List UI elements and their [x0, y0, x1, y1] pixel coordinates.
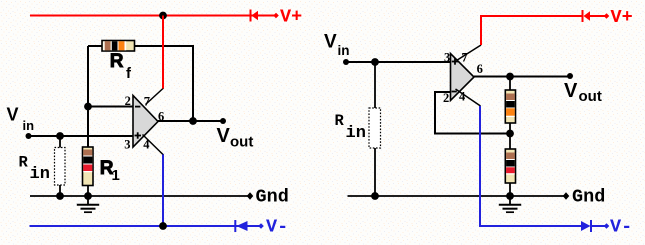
node: Gnd terminal diamond: [247, 192, 254, 200]
svg-text:R: R: [110, 51, 124, 72]
svg-text:V: V: [7, 105, 19, 125]
node: junction dot Rin top: [56, 132, 64, 140]
wire: blue vertical from pin 4 right: [480, 106, 581, 226]
svg-text:V+: V+: [280, 7, 302, 28]
node: output junction dot: [189, 117, 197, 125]
svg-text:V: V: [217, 125, 231, 147]
wire: blue vertical from pin 4: [162, 155, 164, 227]
svg-text:in: in: [30, 165, 50, 184]
svg-text:Gnd: Gnd: [572, 187, 605, 208]
svg-text:in: in: [338, 43, 350, 58]
resistor Rin (dotted outline): [55, 148, 66, 186]
svg-text:2: 2: [125, 94, 131, 108]
wire: feedback loop left vertical (node pin2 to Rf): [87, 46, 89, 107]
wire: red vertical to pin 7: [162, 16, 164, 89]
node: junction dot Rin top: [371, 58, 379, 66]
plus sign at pin 3: [452, 58, 458, 64]
node: junction dot on V- rail: [159, 222, 167, 230]
wire: output from pin 6: [474, 76, 570, 78]
op-amp U1 triangle: [133, 96, 158, 148]
svg-text:3: 3: [124, 138, 130, 152]
wire: red vertical V+: [481, 16, 582, 45]
svg-text:in: in: [23, 118, 35, 133]
node: junction dot R1 bottom: [84, 192, 92, 200]
wire: Rf left lead: [88, 45, 103, 47]
wire: pin 4 diagonal: [456, 89, 481, 106]
node: junction dot pin2/feedback: [84, 103, 92, 111]
wire: ground bus right: [348, 195, 567, 197]
resistor R1 body: [83, 147, 94, 186]
resistor R1 right body: [505, 149, 515, 183]
wire: Rf right lead to right vertical: [134, 45, 193, 47]
node: junction dot on V+ rail: [159, 12, 167, 20]
resistor Rf right body: [505, 90, 515, 123]
resistor Rf body: [102, 41, 135, 52]
connector V- right (triangle and bar): [581, 220, 605, 232]
node: V+ diamond right: [604, 13, 610, 19]
wire: pin 7 diagonal to V+: [146, 88, 164, 105]
node: V+ diamond: [273, 13, 279, 19]
ground symbol right: [499, 196, 521, 212]
wire: Rf top lead: [509, 77, 511, 91]
svg-text:V: V: [564, 80, 578, 102]
wire: pin 2 input wire: [88, 106, 133, 108]
wire: R1 bottom lead: [87, 186, 89, 197]
wire: vertical from pin2 node down to R1: [87, 107, 89, 148]
svg-text:in: in: [346, 124, 366, 143]
wire: Rin bottom lead: [374, 148, 376, 196]
wire: R1 bottom lead: [509, 183, 511, 196]
svg-text:Gnd: Gnd: [256, 187, 289, 208]
wire: feedback loop to pin 2: [435, 92, 510, 134]
svg-text:out: out: [230, 134, 253, 151]
wire: V+ rail red: [30, 15, 276, 17]
node: V- diamond right: [604, 223, 610, 229]
wire: ground bus: [30, 195, 250, 197]
wire: pin 7 diagonal: [457, 45, 482, 61]
wire: output from pin 6: [158, 120, 223, 122]
connector V+ (bar and triangle): [251, 10, 259, 22]
ground symbol: [77, 196, 99, 212]
node: output junction dot: [506, 73, 514, 81]
wire: Rf bottom lead: [509, 123, 511, 134]
svg-text:R: R: [19, 154, 29, 172]
node: Vin terminal dot: [26, 133, 32, 139]
svg-text:6: 6: [477, 62, 483, 76]
node: junction dot R1 bottom: [506, 192, 514, 200]
wire: V- rail blue: [30, 225, 262, 227]
wire: Vin input wire: [346, 61, 450, 63]
wire: feedback right vertical down to output node: [192, 45, 194, 121]
svg-text:V: V: [324, 32, 337, 53]
connector V- (bar and triangle): [235, 220, 247, 232]
wire: Rin bottom lead: [59, 185, 61, 196]
wire: R1 top lead: [509, 134, 511, 150]
wire: Rin top lead: [374, 62, 376, 108]
svg-text:3: 3: [444, 50, 450, 64]
svg-text:R: R: [335, 112, 345, 130]
resistor Rin (dotted outline): [369, 108, 381, 148]
wire: Vin input wire to pin 3: [29, 135, 134, 137]
node: Gnd terminal diamond right: [563, 192, 570, 200]
node: junction dot Rin bottom: [371, 192, 379, 200]
node: feedback junction dot: [506, 130, 514, 138]
node: Vin terminal dot: [343, 59, 349, 65]
node: Vout terminal dot: [220, 118, 226, 124]
node: Vout terminal dot: [567, 73, 573, 79]
node: V- diamond: [258, 223, 264, 229]
svg-text:V+: V+: [611, 7, 633, 28]
svg-text:1: 1: [112, 167, 120, 184]
wire: pin 4 diagonal to V-: [143, 135, 164, 156]
connector V+ right (bar and triangle): [583, 10, 606, 22]
plus sign at pin 3: [135, 132, 142, 138]
wire: Rin top lead: [59, 136, 61, 148]
minus sign at pin 2: [452, 91, 457, 93]
op-amp U2 triangle: [451, 54, 475, 101]
svg-text:V-: V-: [610, 217, 632, 238]
minus sign at pin 2: [135, 106, 140, 108]
node: junction dot Rin bottom: [56, 192, 64, 200]
svg-text:V-: V-: [266, 217, 288, 238]
svg-text:out: out: [579, 88, 602, 105]
